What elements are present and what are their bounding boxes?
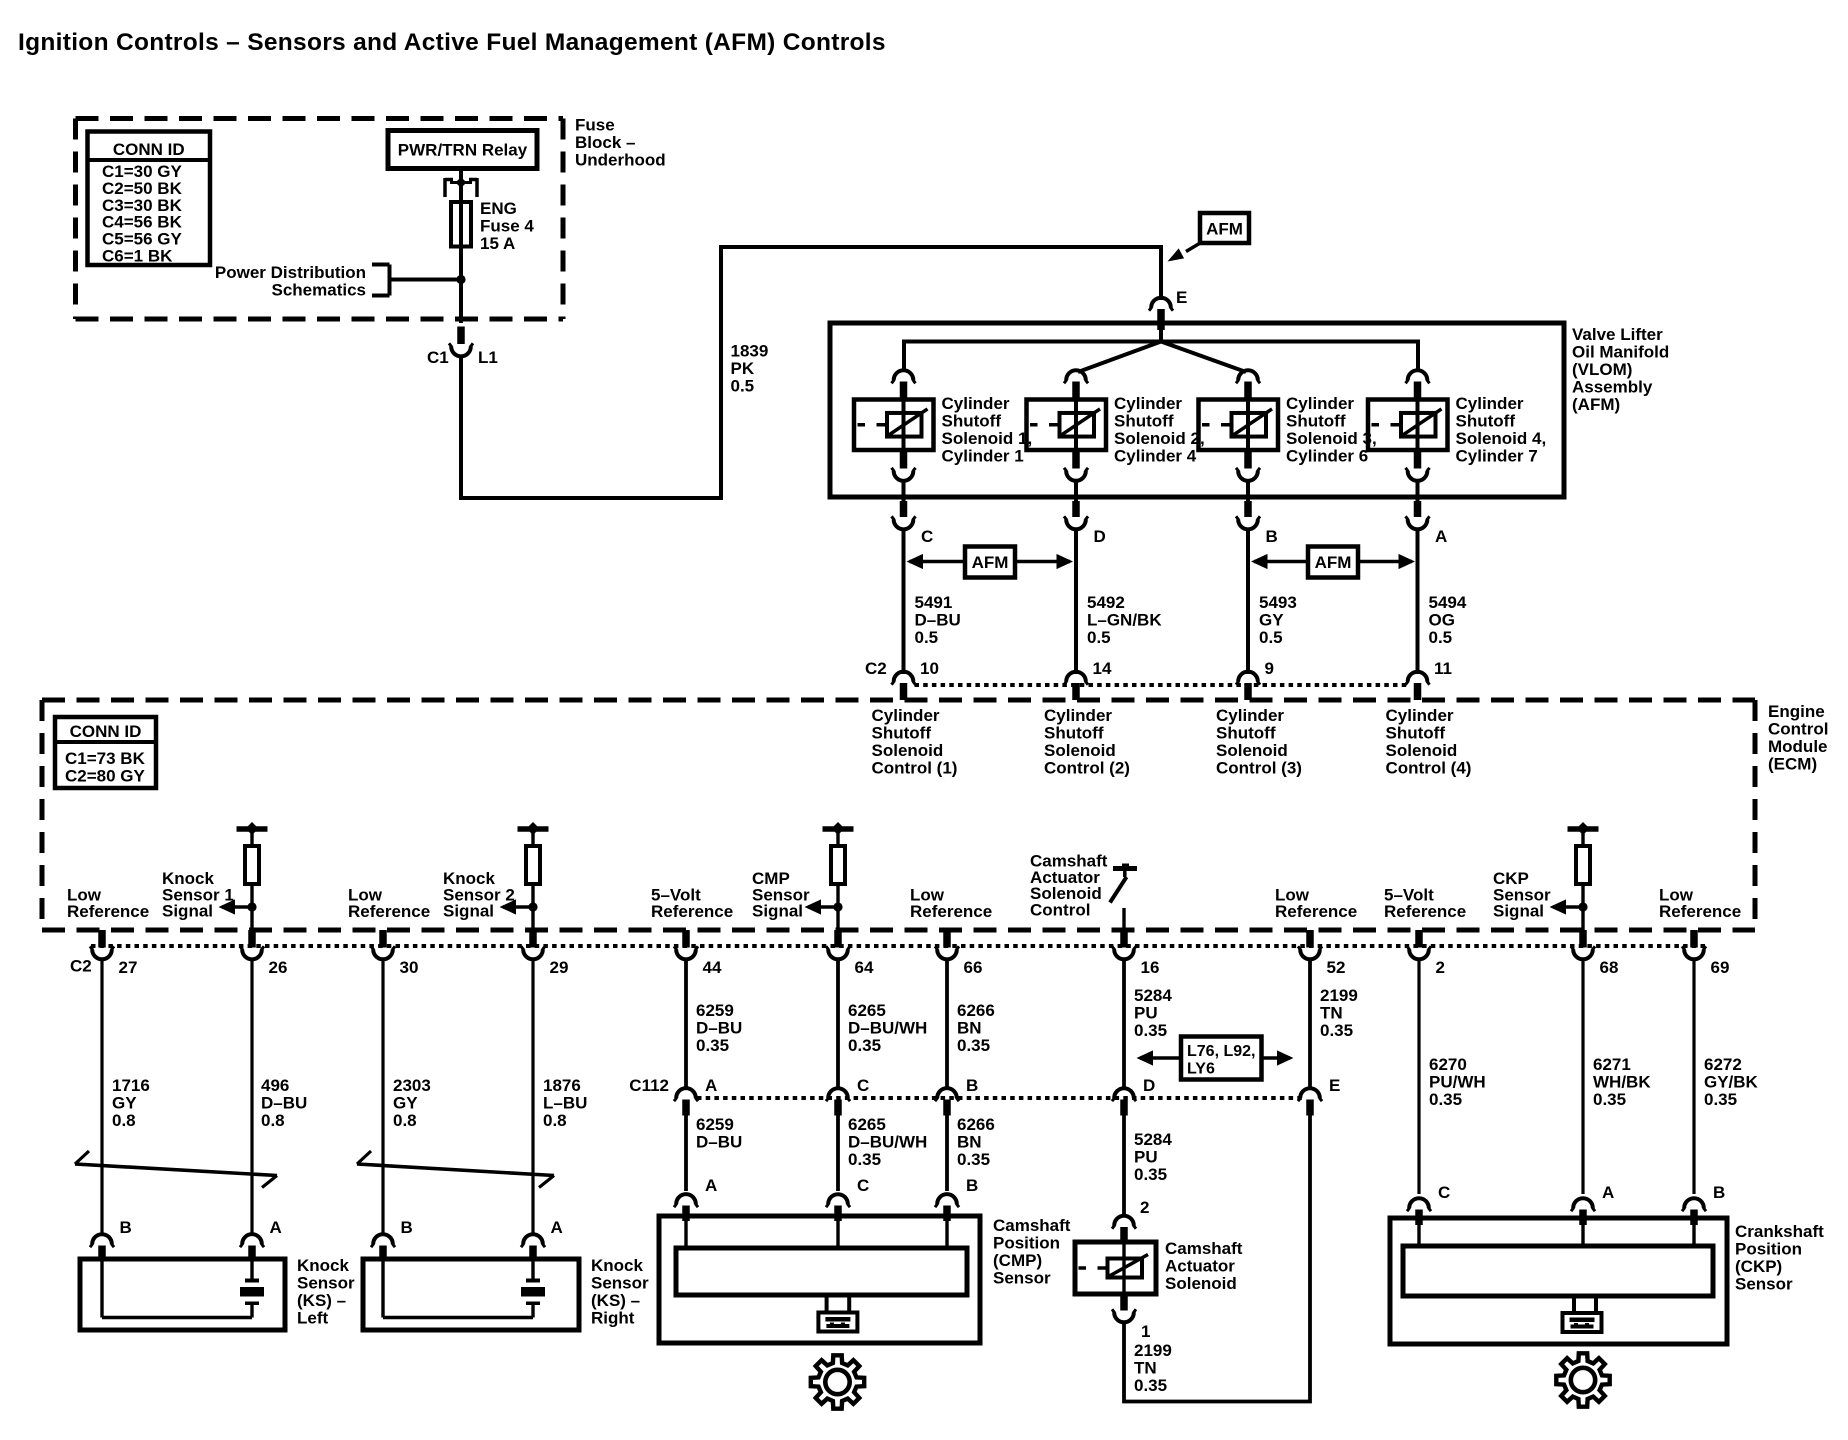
connector C2 pin 27 <box>98 930 106 948</box>
wire - solenoid 2 to VLOM connector <box>1074 481 1078 503</box>
wire 5491 - VLOM C to ECM <box>902 530 906 675</box>
svg-text:D–BU: D–BU <box>696 1133 742 1152</box>
svg-text:Reference: Reference <box>1384 902 1466 921</box>
svg-text:Shutoff: Shutoff <box>1456 412 1516 431</box>
svg-text:Block –: Block – <box>575 133 635 152</box>
svg-text:0.35: 0.35 <box>696 1036 729 1055</box>
svg-text:B: B <box>1266 527 1278 546</box>
svg-text:GY: GY <box>1259 611 1284 630</box>
fuse block - underhood dashed box <box>76 116 564 121</box>
svg-text:Solenoid: Solenoid <box>1044 741 1116 760</box>
svg-text:E: E <box>1176 288 1187 307</box>
svg-text:6266: 6266 <box>957 1001 995 1020</box>
svg-text:B: B <box>966 1176 978 1195</box>
wire - solenoid 3 to VLOM connector <box>1246 481 1250 503</box>
svg-text:Solenoid: Solenoid <box>1216 741 1288 760</box>
connector C2 pin 11 <box>1408 672 1428 682</box>
svg-text:1839: 1839 <box>731 342 769 361</box>
svg-text:D: D <box>1143 1076 1155 1095</box>
svg-text:27: 27 <box>119 958 138 977</box>
svg-text:(KS) –: (KS) – <box>297 1291 346 1310</box>
svg-text:10: 10 <box>920 659 939 678</box>
svg-text:BN: BN <box>957 1019 982 1038</box>
engine option callout L76, L92, LY6 <box>1181 1037 1262 1080</box>
svg-text:66: 66 <box>964 958 983 977</box>
wire 1716 GY 0.8 <box>100 960 103 1235</box>
svg-text:(AFM): (AFM) <box>1572 395 1620 414</box>
svg-text:Power Distribution: Power Distribution <box>215 263 366 282</box>
VLOM connector pin C <box>900 501 908 517</box>
connector C112 dotted line <box>697 1096 1303 1100</box>
svg-text:0.35: 0.35 <box>1134 1376 1167 1395</box>
gear icon - CKP reluctor <box>1556 1353 1609 1406</box>
svg-text:Signal: Signal <box>162 902 213 921</box>
svg-text:6271: 6271 <box>1593 1055 1631 1074</box>
CMP sensor terminals A C B <box>676 1194 696 1204</box>
svg-text:0.35: 0.35 <box>1704 1090 1737 1109</box>
svg-text:Shutoff: Shutoff <box>1216 724 1276 743</box>
fuse block CONN ID table <box>88 132 211 266</box>
svg-text:6259: 6259 <box>696 1115 734 1134</box>
svg-text:6265: 6265 <box>848 1115 886 1134</box>
connector C112 pin A <box>676 1088 696 1098</box>
svg-text:0.8: 0.8 <box>543 1111 567 1130</box>
svg-text:Solenoid 3,: Solenoid 3, <box>1286 429 1377 448</box>
svg-text:Fuse: Fuse <box>575 116 615 135</box>
svg-text:Position: Position <box>1735 1240 1802 1259</box>
svg-text:C2=80 GY: C2=80 GY <box>65 767 146 786</box>
svg-text:0.5: 0.5 <box>731 377 755 396</box>
svg-text:6272: 6272 <box>1704 1055 1742 1074</box>
wire 6271 WH/BK 0.35 <box>1581 960 1584 1195</box>
svg-text:Shutoff: Shutoff <box>1286 412 1346 431</box>
solenoid L1 - cylinder shutoff solenoid 1 <box>902 400 906 453</box>
svg-text:0.5: 0.5 <box>915 628 939 647</box>
svg-text:Cylinder: Cylinder <box>1286 394 1354 413</box>
svg-text:CONN ID: CONN ID <box>70 722 142 741</box>
svg-text:C112: C112 <box>629 1076 669 1095</box>
svg-text:6266: 6266 <box>957 1115 995 1134</box>
wire 6265 D-BU/WH 0.35 lower <box>836 1116 840 1192</box>
ECM internal - knock sensor 1 signal resistor <box>237 826 268 832</box>
svg-text:ENG: ENG <box>480 199 517 218</box>
svg-text:5284: 5284 <box>1134 986 1172 1005</box>
svg-text:PU: PU <box>1134 1004 1158 1023</box>
svg-text:0.35: 0.35 <box>1134 1165 1167 1184</box>
CMP sensor element bar <box>676 1248 967 1295</box>
knock sensor right terminal A <box>523 1234 543 1244</box>
connector C2 pin 29 <box>529 930 537 948</box>
svg-text:6265: 6265 <box>848 1001 886 1020</box>
svg-text:64: 64 <box>855 958 874 977</box>
connector C2 pin 44 <box>682 930 690 948</box>
svg-text:5493: 5493 <box>1259 593 1297 612</box>
svg-text:Sensor: Sensor <box>1735 1275 1793 1294</box>
svg-text:0.8: 0.8 <box>261 1111 285 1130</box>
svg-text:Solenoid 2,: Solenoid 2, <box>1114 429 1205 448</box>
svg-text:Module: Module <box>1768 737 1828 756</box>
wire 5493 - VLOM B to ECM <box>1246 530 1250 675</box>
svg-text:GY: GY <box>112 1094 137 1113</box>
cylinder shutoff solenoid 1 terminal top <box>894 370 914 380</box>
svg-text:0.5: 0.5 <box>1087 628 1111 647</box>
wire - power distribution feed <box>390 278 462 282</box>
connector C2 pin 69 <box>1690 930 1698 948</box>
svg-text:B: B <box>966 1076 978 1095</box>
connector C2 pin 66 <box>943 930 951 948</box>
solenoid 2 terminal bottom <box>1072 450 1080 469</box>
svg-text:D–BU: D–BU <box>696 1019 742 1038</box>
svg-text:0.35: 0.35 <box>957 1150 990 1169</box>
svg-text:A: A <box>705 1076 717 1095</box>
svg-text:Shutoff: Shutoff <box>872 724 932 743</box>
svg-text:B: B <box>120 1218 132 1237</box>
AFM callout arrow <box>1186 243 1201 252</box>
svg-text:Engine: Engine <box>1768 702 1825 721</box>
wire 2199 TN 0.35 upper <box>1308 960 1312 1091</box>
svg-text:5284: 5284 <box>1134 1130 1172 1149</box>
CKP sensor terminals C A B <box>1409 1198 1429 1208</box>
svg-text:Cylinder: Cylinder <box>1456 394 1524 413</box>
wire 5284 PU 0.35 upper <box>1122 960 1126 1091</box>
svg-text:Control (2): Control (2) <box>1044 759 1130 778</box>
svg-text:C: C <box>1438 1183 1450 1202</box>
ECM CONN ID table <box>55 717 156 788</box>
svg-text:Cylinder: Cylinder <box>1216 706 1284 725</box>
cylinder shutoff solenoid 3 terminal top <box>1238 370 1258 380</box>
knock sensor left terminal B <box>92 1234 112 1244</box>
svg-text:Reference: Reference <box>910 902 992 921</box>
svg-text:Reference: Reference <box>348 902 430 921</box>
svg-text:Control: Control <box>1768 720 1828 739</box>
svg-text:Cylinder 6: Cylinder 6 <box>1286 447 1368 466</box>
svg-text:6270: 6270 <box>1429 1055 1467 1074</box>
wire - feed diagonal to solenoid 3 <box>1161 342 1246 373</box>
svg-text:2199: 2199 <box>1320 986 1358 1005</box>
svg-text:0.35: 0.35 <box>848 1150 881 1169</box>
svg-text:11: 11 <box>1434 659 1452 678</box>
fuse F - ENG Fuse 4 15 A <box>459 197 463 250</box>
svg-text:29: 29 <box>550 958 569 977</box>
svg-text:C: C <box>857 1076 869 1095</box>
svg-text:0.5: 0.5 <box>1429 628 1453 647</box>
svg-text:Control (1): Control (1) <box>872 759 958 778</box>
svg-text:Cylinder: Cylinder <box>1114 394 1182 413</box>
svg-text:E: E <box>1329 1076 1340 1095</box>
svg-text:26: 26 <box>269 958 288 977</box>
svg-text:A: A <box>705 1176 717 1195</box>
svg-text:Crankshaft: Crankshaft <box>1735 1222 1824 1241</box>
svg-text:D–BU: D–BU <box>915 611 961 630</box>
svg-text:D–BU: D–BU <box>261 1094 307 1113</box>
wire 6259 D-BU lower <box>684 1116 688 1192</box>
VLOM connector pin A <box>1414 501 1422 517</box>
knock sensor right terminal B <box>373 1234 393 1244</box>
solenoid 3 terminal bottom <box>1244 450 1252 469</box>
wire - VLOM internal feed bus <box>1159 328 1163 342</box>
connector C2 pin 64 <box>834 930 842 948</box>
svg-text:B: B <box>401 1218 413 1237</box>
svg-text:Oil Manifold: Oil Manifold <box>1572 343 1669 362</box>
svg-text:0.35: 0.35 <box>1134 1021 1167 1040</box>
svg-text:Ignition Controls – Sensors an: Ignition Controls – Sensors and Active F… <box>18 29 886 56</box>
wire 6266 BN 0.35 lower <box>945 1116 949 1192</box>
svg-text:Underhood: Underhood <box>575 151 666 170</box>
svg-text:Position: Position <box>993 1234 1060 1253</box>
svg-text:69: 69 <box>1711 958 1730 977</box>
svg-text:Cylinder: Cylinder <box>942 394 1010 413</box>
svg-text:(KS) –: (KS) – <box>591 1291 640 1310</box>
svg-text:Solenoid 4,: Solenoid 4, <box>1456 429 1547 448</box>
svg-text:2: 2 <box>1436 958 1445 977</box>
connector C112 pin C <box>828 1088 848 1098</box>
svg-text:Reference: Reference <box>651 902 733 921</box>
knock sensor KS Left <box>80 1259 285 1330</box>
svg-text:0.8: 0.8 <box>112 1111 136 1130</box>
connector C2 pin 16 <box>1120 930 1128 948</box>
svg-text:C1=73 BK: C1=73 BK <box>65 749 146 768</box>
svg-text:Camshaft: Camshaft <box>993 1216 1071 1235</box>
cylinder shutoff solenoid 2 terminal top <box>1066 370 1086 380</box>
svg-text:Shutoff: Shutoff <box>1044 724 1104 743</box>
svg-text:Control: Control <box>1030 900 1090 919</box>
svg-text:AFM: AFM <box>1206 220 1243 239</box>
connector C2 pin 30 <box>379 930 387 948</box>
svg-text:C2: C2 <box>865 659 887 678</box>
VLOM connector pin D <box>1072 501 1080 517</box>
ECM dashed box <box>42 698 1755 703</box>
svg-text:PK: PK <box>731 359 755 378</box>
CKP sensor connector stem <box>1572 1296 1576 1313</box>
svg-text:Cylinder: Cylinder <box>1386 706 1454 725</box>
connector C2 pin 10 <box>894 672 914 682</box>
svg-text:1716: 1716 <box>112 1076 150 1095</box>
svg-text:Camshaft: Camshaft <box>1165 1239 1243 1258</box>
svg-text:52: 52 <box>1327 958 1346 977</box>
wire - solenoid 4 to VLOM connector <box>1416 481 1420 503</box>
svg-text:Sensor: Sensor <box>993 1269 1051 1288</box>
connector - camshaft actuator solenoid pin 2 <box>1114 1216 1134 1226</box>
connector C2 pin 9 <box>1238 672 1258 682</box>
svg-text:2303: 2303 <box>393 1076 431 1095</box>
CKP sensor element bar <box>1403 1246 1713 1296</box>
wire 496 D-BU 0.8 <box>250 960 253 1235</box>
svg-text:Reference: Reference <box>1659 902 1741 921</box>
ECM internal - CKP sensor signal resistor <box>1568 826 1599 832</box>
wire - relay to fuse <box>459 169 463 205</box>
relay contact terminal symbol <box>443 178 447 197</box>
svg-text:Cylinder: Cylinder <box>1044 706 1112 725</box>
VLOM connector pin B <box>1244 501 1252 517</box>
connector C2 top row dotted line <box>915 683 1408 687</box>
svg-text:Sensor: Sensor <box>591 1274 649 1293</box>
svg-text:Reference: Reference <box>1275 902 1357 921</box>
svg-text:Right: Right <box>591 1309 635 1328</box>
connector C2 pin 68 <box>1579 930 1587 948</box>
power distribution schematics bracket <box>372 263 390 267</box>
svg-text:PWR/TRN Relay: PWR/TRN Relay <box>398 141 528 160</box>
svg-text:Cylinder 1: Cylinder 1 <box>942 447 1024 466</box>
wire 6259 D-BU 0.35 upper <box>684 960 688 1091</box>
connector C112 pin D <box>1114 1088 1134 1098</box>
svg-text:68: 68 <box>1600 958 1619 977</box>
svg-text:Cylinder 7: Cylinder 7 <box>1456 447 1538 466</box>
svg-text:0.5: 0.5 <box>1259 628 1283 647</box>
svg-text:Solenoid: Solenoid <box>1386 741 1458 760</box>
svg-text:B: B <box>1713 1183 1725 1202</box>
svg-text:2: 2 <box>1140 1198 1149 1217</box>
svg-text:5494: 5494 <box>1429 593 1467 612</box>
wire 1839 PK 0.5 - C1 to VLOM E <box>461 247 1161 498</box>
wire 6270 PU/WH 0.35 <box>1417 960 1420 1195</box>
svg-text:Solenoid: Solenoid <box>872 741 944 760</box>
svg-text:LY6: LY6 <box>1187 1061 1215 1078</box>
svg-text:Knock: Knock <box>591 1256 644 1275</box>
svg-text:WH/BK: WH/BK <box>1593 1073 1651 1092</box>
wire - feed diagonal to solenoid 2 <box>1078 342 1161 373</box>
svg-text:Solenoid: Solenoid <box>1165 1274 1237 1293</box>
svg-text:C: C <box>921 527 933 546</box>
svg-text:AFM: AFM <box>1315 553 1352 572</box>
svg-text:Signal: Signal <box>443 902 494 921</box>
svg-text:AFM: AFM <box>972 553 1009 572</box>
wire - solenoid 1 to VLOM connector <box>902 481 906 503</box>
svg-text:15 A: 15 A <box>480 234 515 253</box>
svg-text:Shutoff: Shutoff <box>1386 724 1446 743</box>
svg-text:Sensor: Sensor <box>297 1274 355 1293</box>
svg-text:Signal: Signal <box>1493 902 1544 921</box>
VLOM assembly box <box>830 323 1564 497</box>
wire - fuse to C1 <box>459 247 463 324</box>
svg-text:D–BU/WH: D–BU/WH <box>848 1019 927 1038</box>
svg-text:(VLOM): (VLOM) <box>1572 360 1632 379</box>
svg-text:A: A <box>1602 1183 1614 1202</box>
svg-text:0.35: 0.35 <box>957 1036 990 1055</box>
svg-text:(ECM): (ECM) <box>1768 755 1817 774</box>
svg-text:Shutoff: Shutoff <box>942 412 1002 431</box>
svg-text:Valve Lifter: Valve Lifter <box>1572 325 1663 344</box>
svg-text:L–BU: L–BU <box>543 1094 587 1113</box>
svg-text:496: 496 <box>261 1076 289 1095</box>
AFM twisted-pair marker 2 <box>1254 560 1308 564</box>
ECM internal - knock sensor 2 signal resistor <box>518 826 549 832</box>
svg-text:PU/WH: PU/WH <box>1429 1073 1486 1092</box>
solenoid L2 - cylinder shutoff solenoid 2 <box>1074 400 1078 453</box>
svg-text:C1: C1 <box>427 348 449 367</box>
camshaft actuator solenoid <box>1122 1243 1125 1295</box>
wire 2303 GY 0.8 <box>381 960 384 1235</box>
camshaft position CMP sensor box <box>659 1216 980 1343</box>
svg-text:0.35: 0.35 <box>1593 1090 1626 1109</box>
knock sensor left terminal A <box>242 1234 262 1244</box>
relay K - PWR/TRN Relay box <box>388 131 537 169</box>
svg-text:D–BU/WH: D–BU/WH <box>848 1133 927 1152</box>
wire 5492 - VLOM D to ECM <box>1074 530 1078 675</box>
svg-text:L–GN/BK: L–GN/BK <box>1087 611 1162 630</box>
svg-text:44: 44 <box>703 958 722 977</box>
svg-text:Knock: Knock <box>297 1256 350 1275</box>
svg-text:PU: PU <box>1134 1148 1158 1167</box>
svg-text:L1: L1 <box>478 348 498 367</box>
svg-text:Actuator: Actuator <box>1165 1257 1235 1276</box>
svg-text:9: 9 <box>1265 659 1274 678</box>
svg-text:0.35: 0.35 <box>848 1036 881 1055</box>
svg-text:Cylinder: Cylinder <box>872 706 940 725</box>
svg-text:C: C <box>857 1176 869 1195</box>
connector C2 bottom row dotted line <box>91 944 1705 948</box>
svg-text:16: 16 <box>1141 958 1160 977</box>
wire 5284 PU 0.35 lower <box>1122 1116 1126 1217</box>
connector C2 pin 26 <box>248 930 256 948</box>
connector C1 terminal L1 <box>457 327 465 345</box>
twisted pair marker - knock sensor right <box>357 1164 554 1176</box>
solenoid 4 terminal bottom <box>1414 450 1422 469</box>
svg-text:TN: TN <box>1320 1004 1343 1023</box>
AFM twisted-pair marker 1 <box>910 560 966 564</box>
svg-text:GY: GY <box>393 1094 418 1113</box>
svg-text:A: A <box>1435 527 1447 546</box>
knock sensor KS Right <box>363 1259 579 1330</box>
solenoid 1 terminal bottom <box>900 450 908 469</box>
svg-text:Control (4): Control (4) <box>1386 759 1472 778</box>
svg-text:(CKP): (CKP) <box>1735 1257 1782 1276</box>
svg-text:Cylinder 4: Cylinder 4 <box>1114 447 1197 466</box>
wire 5494 - VLOM A to ECM <box>1416 530 1420 675</box>
wire 6272 GY/BK 0.35 <box>1692 960 1695 1195</box>
connector - camshaft actuator solenoid pin 1 <box>1120 1294 1128 1311</box>
ECM internal - CMP sensor signal resistor <box>823 826 854 832</box>
connector C2 pin 52 <box>1306 930 1314 948</box>
svg-text:0.8: 0.8 <box>393 1111 417 1130</box>
svg-text:L76, L92,: L76, L92, <box>1187 1043 1255 1060</box>
wire 6265 D-BU/WH 0.35 upper <box>836 960 840 1091</box>
svg-text:Solenoid 1,: Solenoid 1, <box>942 429 1033 448</box>
svg-text:14: 14 <box>1093 659 1112 678</box>
connector C112 pin B <box>937 1088 957 1098</box>
svg-text:Left: Left <box>297 1309 329 1328</box>
svg-text:0.35: 0.35 <box>1429 1090 1462 1109</box>
svg-text:CONN ID: CONN ID <box>113 140 185 159</box>
svg-text:0.35: 0.35 <box>1320 1021 1353 1040</box>
wire 2199 TN 0.35 lower - return to E <box>1124 1116 1310 1402</box>
svg-text:Shutoff: Shutoff <box>1114 412 1174 431</box>
gear icon - CMP reluctor <box>811 1355 864 1408</box>
svg-text:Reference: Reference <box>67 902 149 921</box>
cylinder shutoff solenoid 4 terminal top <box>1408 370 1428 380</box>
connector C2 pin 14 <box>1066 672 1086 682</box>
AFM callout box <box>1200 213 1249 243</box>
svg-text:TN: TN <box>1134 1359 1157 1378</box>
svg-text:A: A <box>270 1218 282 1237</box>
svg-text:5492: 5492 <box>1087 593 1125 612</box>
CMP sensor connector stem <box>825 1295 829 1313</box>
svg-text:5491: 5491 <box>915 593 953 612</box>
svg-text:C6=1 BK: C6=1 BK <box>102 247 173 266</box>
wire 1876 L-BU 0.8 <box>531 960 534 1235</box>
svg-text:6259: 6259 <box>696 1001 734 1020</box>
twisted pair marker - knock sensor left <box>75 1164 277 1176</box>
svg-text:C2: C2 <box>70 957 92 976</box>
svg-text:GY/BK: GY/BK <box>1704 1073 1759 1092</box>
svg-text:D: D <box>1094 527 1106 546</box>
connector C112 pin E <box>1300 1088 1320 1098</box>
svg-text:(CMP): (CMP) <box>993 1251 1042 1270</box>
svg-text:Control (3): Control (3) <box>1216 759 1302 778</box>
solenoid L4 - cylinder shutoff solenoid 4 <box>1416 400 1420 453</box>
connector E at VLOM <box>1151 298 1171 308</box>
svg-text:A: A <box>551 1218 563 1237</box>
crankshaft position CKP sensor box <box>1390 1218 1727 1344</box>
